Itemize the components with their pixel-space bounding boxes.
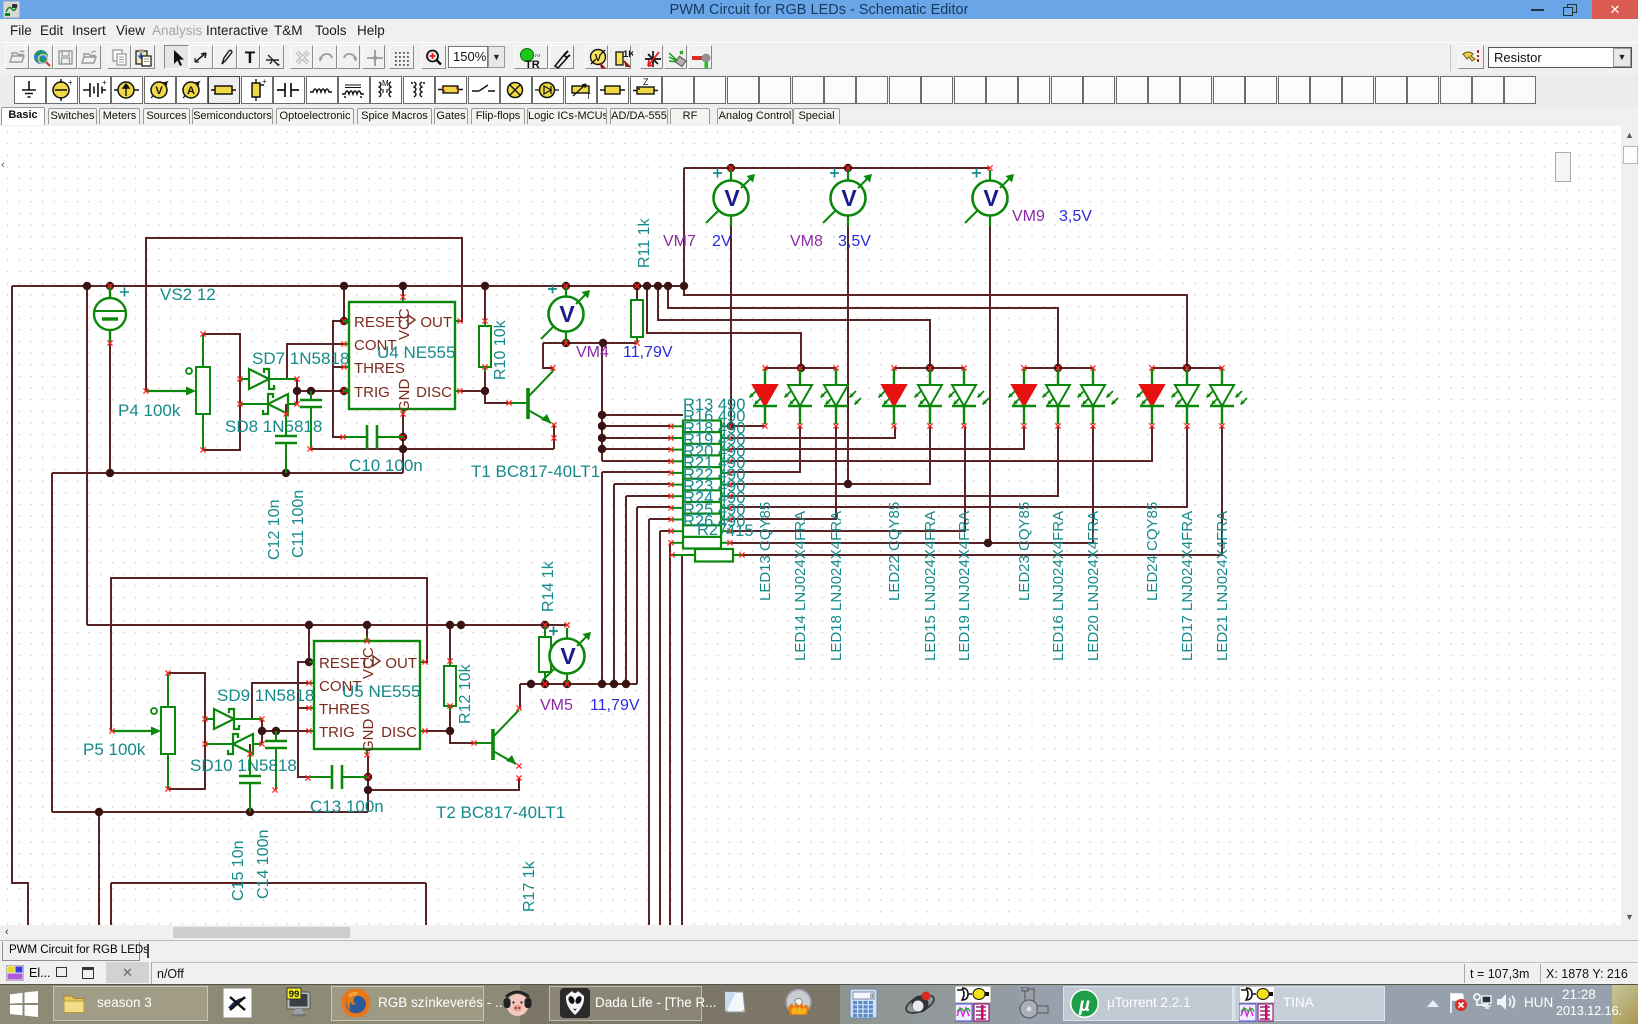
LED14 LNJ024X4FRA <box>785 368 813 424</box>
wire supply drop x87 <box>86 286 88 625</box>
wire P4 loop <box>203 334 240 450</box>
svg-text:THRES: THRES <box>319 701 370 718</box>
svg-text:VM8: VM8 <box>790 233 823 250</box>
wire R23 row left <box>626 495 671 497</box>
wire to T1 collector <box>543 343 553 368</box>
svg-text:VCC: VCC <box>396 308 413 340</box>
wire R13 row <box>602 414 683 416</box>
wire U5 THRES stub <box>298 707 309 709</box>
IC U5 NE555 <box>314 641 420 749</box>
svg-text:V: V <box>983 185 999 211</box>
wire P5 loop <box>168 673 205 789</box>
wire bottom drop B <box>425 883 427 925</box>
wire R22 row to LED15 <box>730 426 930 484</box>
voltmeter VM5 <box>542 627 591 685</box>
wire R18 row left <box>602 437 671 439</box>
wire bank col x660 <box>659 531 661 925</box>
transistor T2 BC817-40LT1 <box>474 742 493 744</box>
svg-text:C11 100n: C11 100n <box>290 490 307 558</box>
wire SD9-SD10 junction <box>261 719 263 744</box>
LED16 LNJ024X4FRA <box>1043 368 1071 424</box>
wire R27 row to LED20 <box>730 426 1093 543</box>
wire R21 row left <box>602 471 671 473</box>
svg-text:LED13 CQY85: LED13 CQY85 <box>757 502 774 601</box>
wire bottom bracket <box>111 882 426 884</box>
wire R19 row to LED23 <box>730 426 1024 449</box>
wire R26 row to LED19 <box>730 426 965 531</box>
wire R14 bottom stub <box>544 678 546 684</box>
svg-text:M: M <box>382 79 389 88</box>
wire R25 row left <box>649 518 671 520</box>
wire LED group3 anode bus <box>1024 367 1093 369</box>
svg-text:R27: R27 <box>697 521 727 539</box>
resistor R15 offset <box>695 549 733 562</box>
wire R16 row right <box>730 425 765 427</box>
wire U5 GND stem <box>367 755 369 812</box>
svg-text:µ: µ <box>1078 995 1090 1016</box>
wire THRES stub <box>333 366 344 368</box>
wire bus to RESET <box>343 286 345 321</box>
svg-text:LED14 LNJ024X4FRA: LED14 LNJ024X4FRA <box>792 511 809 661</box>
voltmeter VM8 <box>823 169 872 227</box>
svg-text:P5 100k: P5 100k <box>83 740 146 759</box>
svg-text:+: + <box>68 78 73 87</box>
wire left drop x12 <box>12 286 28 925</box>
wire upper ground rail <box>52 472 403 474</box>
svg-text:OUT: OUT <box>385 655 417 672</box>
svg-text:1K: 1K <box>623 49 633 60</box>
wire R20 row to LED24 <box>730 426 1152 461</box>
svg-text:LED16 LNJ024X4FRA: LED16 LNJ024X4FRA <box>1050 511 1067 661</box>
capacitor C13 100n <box>308 776 332 778</box>
wire R22 row left <box>614 483 671 485</box>
wire bank col x602 <box>601 472 603 684</box>
wire VS2 to ground <box>109 343 111 473</box>
svg-text:R10 10k: R10 10k <box>492 319 509 380</box>
wire T1 emitter drop <box>553 425 555 449</box>
resistor R11 1k <box>631 300 643 337</box>
LED18 LNJ024X4FRA <box>821 368 862 424</box>
wire R18 row to LED22 <box>730 426 895 438</box>
svg-text:DISC: DISC <box>416 384 452 401</box>
wire VCC stub U4 <box>402 286 404 297</box>
wire R15 row left <box>672 554 683 556</box>
svg-text:11,79V: 11,79V <box>590 697 640 714</box>
svg-text:415: 415 <box>726 522 754 540</box>
svg-text:TRIG: TRIG <box>354 384 390 401</box>
svg-text:V: V <box>841 185 857 211</box>
wire LED group4 anode bus <box>1152 367 1222 369</box>
svg-text:THRES: THRES <box>354 360 405 377</box>
svg-text:11,79V: 11,79V <box>623 344 673 361</box>
wire main +12V bus <box>12 285 684 287</box>
wire VM4 to R-bank <box>601 343 603 461</box>
wire U5 RESET bracket to C13 <box>298 662 309 777</box>
svg-text:3,5V: 3,5V <box>1059 208 1092 225</box>
LED20 LNJ024X4FRA <box>1078 368 1119 424</box>
wire LED group1 anode bus <box>765 367 836 369</box>
diode SD9 1N5818 <box>205 709 262 729</box>
wire lower ground rail <box>52 811 368 813</box>
wire bank col x626 <box>625 496 627 684</box>
wire R27 row left <box>670 542 671 544</box>
svg-text:VM4: VM4 <box>576 344 609 361</box>
svg-text:V: V <box>595 53 602 64</box>
wire CONT to SD9 <box>252 683 309 719</box>
wire R23 row to LED16 <box>730 426 1058 496</box>
wire bank col x637 <box>636 507 638 684</box>
wire VM7 drop <box>730 225 732 426</box>
svg-text:V: V <box>559 301 575 327</box>
svg-text:R12 10k: R12 10k <box>457 663 474 724</box>
svg-text:VS2 12: VS2 12 <box>160 285 216 304</box>
svg-text:T1 BC817-40LT1: T1 BC817-40LT1 <box>471 462 600 481</box>
wire VM4 row <box>543 342 637 344</box>
svg-text:U5 NE555: U5 NE555 <box>342 682 420 701</box>
svg-text:2V: 2V <box>712 233 732 250</box>
wire VCC stub U5 <box>366 625 368 641</box>
voltmeter VM9 <box>965 169 1014 227</box>
wire U4 OUT feedback loop <box>146 238 462 391</box>
potentiometer P4 100k <box>196 367 210 414</box>
wire emitter return row <box>310 448 554 450</box>
LED23 CQY85 red <box>1009 368 1037 424</box>
junction dots <box>106 282 114 290</box>
wire CONT to SD7 <box>287 344 344 379</box>
svg-text:GND: GND <box>396 379 413 413</box>
svg-text:LED23 CQY85: LED23 CQY85 <box>1016 502 1033 601</box>
wire ground link x52 <box>51 473 53 812</box>
wire R10 to DISC row <box>484 372 486 391</box>
wire VM5 row <box>520 683 637 685</box>
transistor T1 BC817-40LT1 <box>509 402 528 404</box>
wire bracket to LED group2 <box>658 286 930 368</box>
wire bracket to LED group4 <box>684 286 1187 368</box>
svg-text:99: 99 <box>289 989 300 1000</box>
wire bus up to meters rail <box>683 168 685 286</box>
wire C15 stub <box>249 744 251 754</box>
wire C12 stub <box>285 404 287 414</box>
wire LED group2 anode bus <box>894 367 964 369</box>
svg-text:C10 100n: C10 100n <box>349 456 423 475</box>
capacitor C11 100n <box>310 391 312 400</box>
svg-text:LED20 LNJ024X4FRA: LED20 LNJ024X4FRA <box>1085 511 1102 661</box>
svg-text:TRIG: TRIG <box>319 724 355 741</box>
resistor R12 10k <box>449 661 451 666</box>
svg-text:LED18 LNJ024X4FRA: LED18 LNJ024X4FRA <box>828 511 845 661</box>
svg-text:LED21 LNJ024X4FRA: LED21 LNJ024X4FRA <box>1214 511 1231 661</box>
svg-text:U4 NE555: U4 NE555 <box>377 343 455 362</box>
svg-text:VCC: VCC <box>360 647 377 679</box>
wire DISC to T1 base <box>460 391 509 403</box>
LED19 LNJ024X4FRA <box>949 368 990 424</box>
svg-text:R14 1k: R14 1k <box>540 560 557 612</box>
svg-text:C15 10n: C15 10n <box>230 841 247 902</box>
wire U4 GND stem <box>402 414 404 473</box>
wire R21 row to LED14 <box>730 426 800 472</box>
wire bank col x682 <box>681 555 683 925</box>
wire lower TRIG node <box>262 730 309 732</box>
IC U4 NE555 <box>349 302 455 409</box>
svg-text:P4 100k: P4 100k <box>118 401 181 420</box>
svg-text:T2 BC817-40LT1: T2 BC817-40LT1 <box>436 803 565 822</box>
svg-text:VM5: VM5 <box>540 697 573 714</box>
svg-text:SD8 1N5818: SD8 1N5818 <box>225 417 322 436</box>
LED17 LNJ024X4FRA <box>1172 368 1200 424</box>
wire meters top rail <box>684 167 990 169</box>
svg-text:V: V <box>724 185 740 211</box>
svg-text:R11 1k: R11 1k <box>636 217 653 268</box>
LED21 LNJ024X4FRA <box>1207 368 1248 424</box>
wire bus to R10 <box>484 286 486 321</box>
diode SD8 1N5818 <box>240 394 297 414</box>
wire TRIG node <box>297 390 344 392</box>
wire VM9 drop <box>989 225 991 543</box>
svg-text:VM9: VM9 <box>1012 208 1045 225</box>
wire bank col x649 <box>648 519 650 925</box>
wire bracket to LED group1 <box>647 286 801 368</box>
svg-text:LED17 LNJ024X4FRA: LED17 LNJ024X4FRA <box>1179 511 1196 661</box>
svg-text:+: + <box>262 77 267 86</box>
resistor R14 1k <box>544 625 546 637</box>
wire SD7-SD8 junction <box>296 379 298 404</box>
svg-text:DISC: DISC <box>381 724 417 741</box>
wire T2 emitter drop <box>518 778 520 790</box>
wire lower +12V bus <box>87 624 566 626</box>
wire U5 OUT feedback loop <box>111 578 427 731</box>
wire DISC to T2 base <box>425 731 474 743</box>
wire R16 row left <box>602 425 671 427</box>
svg-text:+: + <box>102 78 107 87</box>
resistor bank R13,R16,R18-R27 <box>683 421 721 549</box>
svg-text:GND: GND <box>360 719 377 753</box>
LED24 CQY85 red <box>1137 368 1165 424</box>
svg-text:C12 10n: C12 10n <box>266 500 283 561</box>
wire R24 row left <box>637 506 671 508</box>
wire bottom drop A <box>110 883 112 925</box>
wire RESET bracket to C10 <box>333 321 344 437</box>
voltmeter VM7 <box>706 169 755 227</box>
svg-text:LED19 LNJ024X4FRA: LED19 LNJ024X4FRA <box>956 511 973 661</box>
capacitor C10 100n <box>343 436 367 438</box>
svg-text:VM7: VM7 <box>663 233 696 250</box>
svg-text:Z: Z <box>643 77 649 87</box>
wire R24 row to LED17 <box>730 426 1187 507</box>
LED15 LNJ024X4FRA <box>915 368 943 424</box>
svg-text:A: A <box>187 85 195 97</box>
svg-text:C13 100n: C13 100n <box>310 797 384 816</box>
svg-text:C14 100n: C14 100n <box>255 830 272 899</box>
svg-text:V: V <box>560 643 576 669</box>
wire bank col x614 <box>613 484 615 684</box>
wire VM8 drop <box>847 225 849 484</box>
wire bank col x670 <box>669 543 671 925</box>
svg-text:R17 1k: R17 1k <box>521 860 538 912</box>
diode SD7 1N5818 <box>240 369 297 389</box>
wire R15 row to LED21 <box>742 426 1222 555</box>
wire bracket to LED group3 <box>668 286 1058 368</box>
voltmeter VM4 <box>541 285 590 343</box>
wire bus to R12 <box>449 625 451 661</box>
svg-text:LED22 CQY85: LED22 CQY85 <box>886 502 903 601</box>
svg-text:3,5V: 3,5V <box>838 233 871 250</box>
resistor R10 10k <box>484 321 486 326</box>
capacitor C15 10n <box>249 754 251 776</box>
potentiometer P5 100k <box>161 707 175 754</box>
svg-text:OUT: OUT <box>420 314 452 331</box>
wire bus to U5 RESET <box>308 625 310 662</box>
wire lower emitter return <box>368 789 520 791</box>
wire bus to R11 <box>636 286 638 300</box>
wire R12 to DISC row <box>449 711 451 731</box>
LED22 CQY85 red <box>879 368 907 424</box>
svg-text:T: T <box>245 48 256 67</box>
capacitor C14 100n <box>275 731 277 741</box>
capacitor C12 10n <box>285 414 287 436</box>
wire R26 row left <box>660 530 671 532</box>
svg-text:TR: TR <box>525 59 540 71</box>
svg-text:V: V <box>155 85 163 97</box>
wire ground drop x99 <box>98 812 100 925</box>
svg-text:T: T <box>586 92 591 101</box>
svg-text:LED24 CQY85: LED24 CQY85 <box>1144 502 1161 601</box>
svg-text:SD10 1N5818: SD10 1N5818 <box>190 756 297 775</box>
voltage source VS2 <box>109 286 111 299</box>
wire R19 row left <box>602 448 671 450</box>
svg-text:LED15 LNJ024X4FRA: LED15 LNJ024X4FRA <box>922 511 939 661</box>
wire R25 row to LED18 <box>730 426 836 519</box>
wire R20 row left <box>602 460 671 462</box>
svg-text:∾: ∾ <box>534 51 541 60</box>
svg-text:SD7 1N5818: SD7 1N5818 <box>252 349 349 368</box>
diode SD10 1N5818 <box>205 734 262 754</box>
LED13 CQY85 red <box>750 368 778 424</box>
wire to T2 collector <box>519 684 521 709</box>
svg-text:SD9 1N5818: SD9 1N5818 <box>217 686 314 705</box>
